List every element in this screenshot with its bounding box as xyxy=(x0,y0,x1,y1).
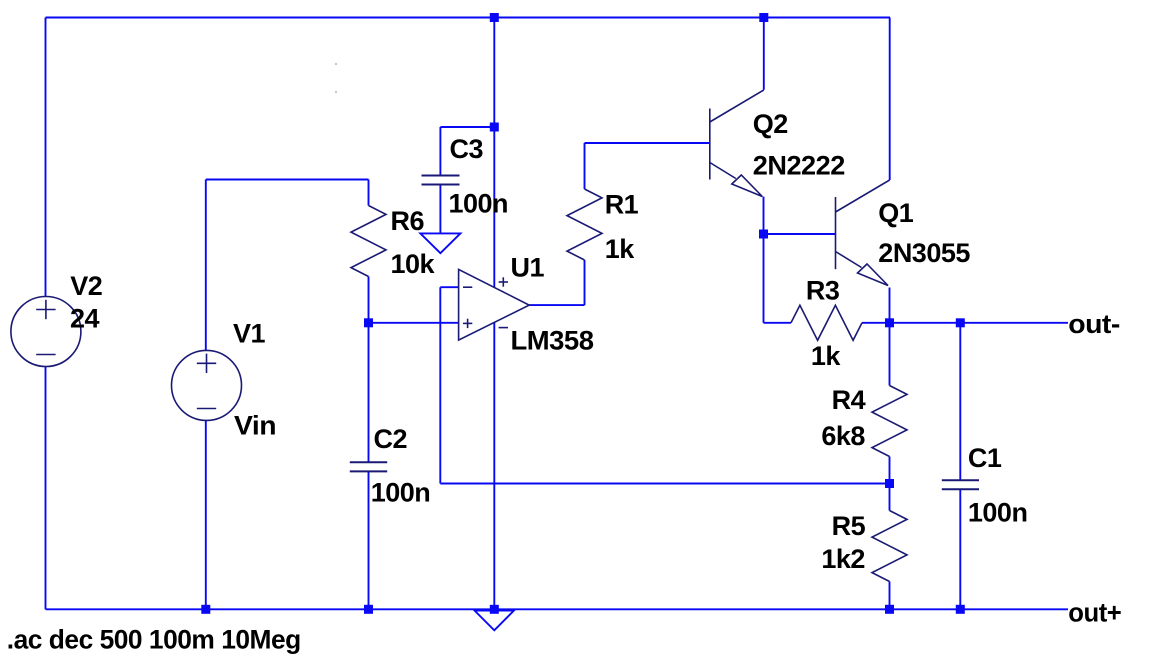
resistor R5 xyxy=(872,511,907,582)
node top rail / Q2 collector xyxy=(759,13,768,22)
wire R6 bottom to node xyxy=(368,277,370,323)
wire R1 to Q2 base xyxy=(585,142,710,144)
svg-text:C3: C3 xyxy=(450,134,484,164)
svg-text:2N2222: 2N2222 xyxy=(753,150,845,180)
svg-text:10k: 10k xyxy=(391,249,436,279)
wire left rail top (V2 plus to top rail) xyxy=(45,18,47,297)
wire V1 top vertical xyxy=(205,180,207,351)
wire R6 top lead xyxy=(368,180,370,206)
resistor R3 xyxy=(791,305,862,340)
node C3 junction xyxy=(490,123,499,132)
wire R4 bottom lead xyxy=(889,457,891,484)
wire left rail bottom (V2 minus to bottom rail) xyxy=(45,367,47,610)
node R6 C2 op-amp junction xyxy=(364,318,373,327)
wire R3 left lead xyxy=(764,322,792,324)
wire supply rail top (to op-amp V+) xyxy=(493,18,495,288)
wire R1 top lead xyxy=(584,143,586,189)
svg-text:V2: V2 xyxy=(70,271,102,301)
svg-text:Q2: Q2 xyxy=(753,109,788,139)
wire R5 top lead xyxy=(889,484,891,511)
svg-text:out-: out- xyxy=(1068,309,1120,339)
node R5 bottom xyxy=(885,605,894,614)
wire op-amp V- to ground rail xyxy=(493,322,495,609)
wire Q2 emitter down to R3 xyxy=(763,197,765,323)
svg-text:LM358: LM358 xyxy=(511,326,594,356)
resistor R6 xyxy=(351,206,386,277)
wire node to op-amp plus input xyxy=(369,322,459,324)
voltage source V1 xyxy=(172,350,242,420)
resistor R4 xyxy=(872,386,907,457)
svg-text:R4: R4 xyxy=(832,385,866,415)
ground flag at bottom rail xyxy=(475,611,515,631)
wire C1 top lead xyxy=(959,323,961,480)
svg-text:1k: 1k xyxy=(605,234,636,264)
node feedback R4 R5 junction xyxy=(885,479,894,488)
resistor R1 xyxy=(567,189,602,260)
wire feedback vertical xyxy=(439,287,441,483)
node out- junction xyxy=(885,318,894,327)
wire R1 bottom lead xyxy=(584,260,586,305)
wire node to Q1 base xyxy=(764,233,836,235)
artifact dot 2 xyxy=(335,91,337,93)
voltage source V2 xyxy=(11,297,81,367)
svg-text:R1: R1 xyxy=(605,190,639,220)
wire C2 bottom to bottom rail xyxy=(368,471,370,609)
capacitor C3 xyxy=(422,176,460,185)
wire node to C2 top xyxy=(368,323,370,463)
wire bottom rail (out+ net) xyxy=(46,608,1069,610)
svg-text:C2: C2 xyxy=(374,424,408,454)
node top rail / supply xyxy=(490,13,499,22)
svg-text:1k2: 1k2 xyxy=(821,544,865,574)
capacitor C1 xyxy=(942,480,979,489)
wire C1 bottom lead xyxy=(959,489,961,609)
svg-text:6k8: 6k8 xyxy=(821,421,865,451)
transistor Q1 xyxy=(836,180,890,286)
node Q2 emitter Q1 base junction xyxy=(759,230,768,239)
svg-text:R6: R6 xyxy=(391,206,425,236)
wire C3 top lead xyxy=(439,127,441,176)
svg-text:100n: 100n xyxy=(968,498,1028,528)
svg-text:2N3055: 2N3055 xyxy=(878,238,970,268)
node C1 top junction xyxy=(956,318,965,327)
op-amp U1 xyxy=(459,269,530,340)
artifact dot 1 xyxy=(335,63,337,65)
svg-text:Q1: Q1 xyxy=(878,198,914,228)
svg-text:V1: V1 xyxy=(233,319,266,349)
wire R4 top lead xyxy=(889,323,891,386)
wire op-amp minus input xyxy=(440,286,458,288)
svg-text:U1: U1 xyxy=(511,253,545,283)
svg-text:1k: 1k xyxy=(811,341,842,371)
wire op-amp output xyxy=(529,304,584,306)
svg-text:R3: R3 xyxy=(806,276,840,306)
wire C3 junction horizontal xyxy=(440,126,494,128)
svg-text:100n: 100n xyxy=(449,189,509,219)
wire Q1 emitter to out- node xyxy=(889,288,891,323)
svg-text:C1: C1 xyxy=(968,443,1002,473)
svg-text:out+: out+ xyxy=(1068,598,1121,628)
svg-text:R5: R5 xyxy=(832,511,866,541)
wire out- horizontal xyxy=(890,322,1069,324)
transistor Q2 xyxy=(710,90,764,197)
wire Q1 collector to top rail xyxy=(889,18,891,181)
svg-text:Vin: Vin xyxy=(234,411,276,441)
node ground junction xyxy=(490,605,499,614)
node C1 bottom xyxy=(956,605,965,614)
wire V1 bottom vertical xyxy=(205,420,207,609)
wire C3 bottom lead to ground xyxy=(439,185,441,234)
svg-text:100n: 100n xyxy=(371,478,431,508)
wire R5 bottom lead xyxy=(889,582,891,610)
wire R3 right lead xyxy=(862,322,890,324)
node C2 bottom xyxy=(364,605,373,614)
wire V1 to R6 horizontal xyxy=(206,179,369,181)
svg-text:24: 24 xyxy=(70,304,100,334)
capacitor C2 xyxy=(350,462,387,471)
svg-text:.ac dec 500 100m 10Meg: .ac dec 500 100m 10Meg xyxy=(7,624,301,654)
wire top rail xyxy=(46,17,891,19)
wire feedback horizontal xyxy=(440,483,889,485)
node V1 bottom xyxy=(201,605,210,614)
wire Q2 collector to top rail xyxy=(763,18,765,90)
ground flag below C3 xyxy=(420,233,460,253)
